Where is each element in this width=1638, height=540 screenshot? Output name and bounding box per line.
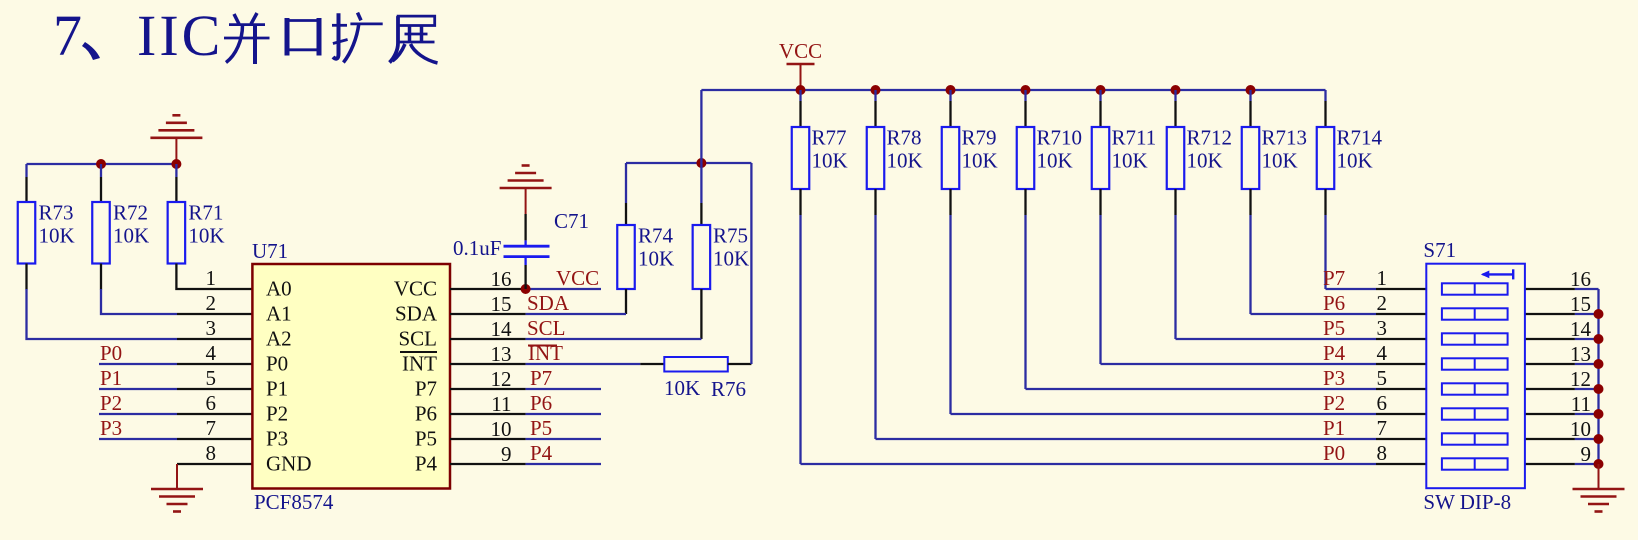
- svg-text:P7: P7: [1323, 266, 1345, 290]
- svg-text:R74: R74: [638, 224, 674, 248]
- svg-text:P3: P3: [1323, 366, 1345, 390]
- svg-text:U71: U71: [252, 239, 288, 263]
- svg-text:10: 10: [491, 417, 512, 441]
- svg-text:10K: 10K: [39, 224, 75, 248]
- svg-text:R712: R712: [1187, 126, 1233, 150]
- svg-text:13: 13: [1570, 342, 1591, 366]
- svg-text:9: 9: [1581, 442, 1592, 466]
- svg-text:7: 7: [53, 3, 82, 68]
- svg-text:3: 3: [206, 316, 217, 340]
- svg-text:10K: 10K: [887, 149, 923, 173]
- svg-text:SDA: SDA: [395, 302, 438, 326]
- svg-text:P2: P2: [266, 402, 288, 426]
- svg-text:A1: A1: [266, 302, 292, 326]
- svg-text:10K: 10K: [638, 247, 674, 271]
- svg-text:10K: 10K: [962, 149, 998, 173]
- svg-text:P7: P7: [530, 366, 552, 390]
- svg-text:5: 5: [206, 366, 217, 390]
- svg-text:R75: R75: [713, 224, 748, 248]
- svg-text:R77: R77: [812, 126, 847, 150]
- svg-text:13: 13: [491, 342, 512, 366]
- svg-text:P1: P1: [100, 366, 122, 390]
- svg-text:S71: S71: [1423, 238, 1456, 262]
- svg-text:VCC: VCC: [779, 39, 822, 63]
- svg-text:16: 16: [1570, 267, 1591, 291]
- svg-text:1: 1: [206, 266, 217, 290]
- svg-text:INT: INT: [402, 352, 437, 376]
- svg-text:P2: P2: [1323, 391, 1345, 415]
- svg-text:R72: R72: [113, 201, 148, 225]
- svg-text:2: 2: [206, 291, 217, 315]
- svg-text:7: 7: [206, 416, 217, 440]
- svg-text:5: 5: [1377, 366, 1388, 390]
- svg-text:P5: P5: [530, 416, 552, 440]
- svg-text:R711: R711: [1112, 126, 1157, 150]
- svg-text:P6: P6: [1323, 291, 1345, 315]
- svg-text:4: 4: [206, 341, 217, 365]
- svg-text:P3: P3: [266, 427, 288, 451]
- svg-text:SCL: SCL: [398, 327, 437, 351]
- svg-text:9: 9: [501, 442, 512, 466]
- svg-text:R714: R714: [1337, 126, 1383, 150]
- svg-text:10K: 10K: [713, 247, 749, 271]
- svg-text:11: 11: [491, 392, 511, 416]
- svg-text:P2: P2: [100, 391, 122, 415]
- svg-text:R78: R78: [887, 126, 922, 150]
- svg-text:P6: P6: [530, 391, 552, 415]
- svg-text:16: 16: [491, 267, 512, 291]
- svg-text:P5: P5: [415, 427, 437, 451]
- svg-text:R79: R79: [962, 126, 997, 150]
- svg-text:R713: R713: [1262, 126, 1308, 150]
- svg-text:10K: 10K: [1187, 149, 1223, 173]
- svg-text:10K: 10K: [1262, 149, 1298, 173]
- svg-text:P0: P0: [100, 341, 122, 365]
- svg-text:A2: A2: [266, 327, 292, 351]
- svg-text:14: 14: [1570, 317, 1592, 341]
- svg-text:P4: P4: [415, 452, 438, 476]
- svg-text:IIC: IIC: [137, 3, 223, 68]
- svg-text:10K: 10K: [1037, 149, 1073, 173]
- svg-text:15: 15: [491, 292, 512, 316]
- svg-text:R710: R710: [1037, 126, 1083, 150]
- svg-text:2: 2: [1377, 291, 1388, 315]
- svg-text:P5: P5: [1323, 316, 1345, 340]
- svg-text:8: 8: [1377, 441, 1388, 465]
- svg-text:R73: R73: [39, 201, 74, 225]
- svg-text:GND: GND: [266, 452, 312, 476]
- svg-text:C71: C71: [554, 209, 589, 233]
- svg-text:VCC: VCC: [394, 277, 437, 301]
- svg-text:P7: P7: [415, 377, 437, 401]
- svg-text:P4: P4: [1323, 341, 1346, 365]
- svg-text:SDA: SDA: [527, 291, 570, 315]
- svg-text:6: 6: [206, 391, 217, 415]
- svg-text:10: 10: [1570, 417, 1591, 441]
- svg-text:0.1uF: 0.1uF: [453, 236, 501, 260]
- svg-text:15: 15: [1570, 292, 1591, 316]
- svg-text:SCL: SCL: [527, 316, 566, 340]
- svg-text:R71: R71: [188, 201, 223, 225]
- svg-text:PCF8574: PCF8574: [254, 490, 334, 514]
- svg-text:10K: 10K: [664, 376, 700, 400]
- svg-text:A0: A0: [266, 277, 292, 301]
- svg-text:11: 11: [1571, 392, 1591, 416]
- svg-text:SW DIP-8: SW DIP-8: [1423, 490, 1511, 514]
- svg-text:14: 14: [491, 317, 513, 341]
- svg-text:P6: P6: [415, 402, 437, 426]
- svg-text:10K: 10K: [1337, 149, 1373, 173]
- svg-text:P3: P3: [100, 416, 122, 440]
- svg-text:1: 1: [1377, 266, 1388, 290]
- svg-text:P1: P1: [266, 377, 288, 401]
- svg-text:VCC: VCC: [556, 266, 599, 290]
- svg-text:P4: P4: [530, 441, 553, 465]
- svg-text:12: 12: [1570, 367, 1591, 391]
- svg-text:10K: 10K: [1112, 149, 1148, 173]
- svg-text:P1: P1: [1323, 416, 1345, 440]
- svg-text:P0: P0: [1323, 441, 1345, 465]
- svg-text:3: 3: [1377, 316, 1388, 340]
- svg-text:P0: P0: [266, 352, 288, 376]
- svg-text:10K: 10K: [113, 224, 149, 248]
- svg-text:R76: R76: [711, 377, 746, 401]
- svg-text:12: 12: [491, 367, 512, 391]
- svg-text:10K: 10K: [812, 149, 848, 173]
- svg-text:6: 6: [1377, 391, 1388, 415]
- svg-text:7: 7: [1377, 416, 1388, 440]
- svg-text:10K: 10K: [188, 224, 224, 248]
- svg-text:8: 8: [206, 441, 217, 465]
- svg-text:4: 4: [1377, 341, 1388, 365]
